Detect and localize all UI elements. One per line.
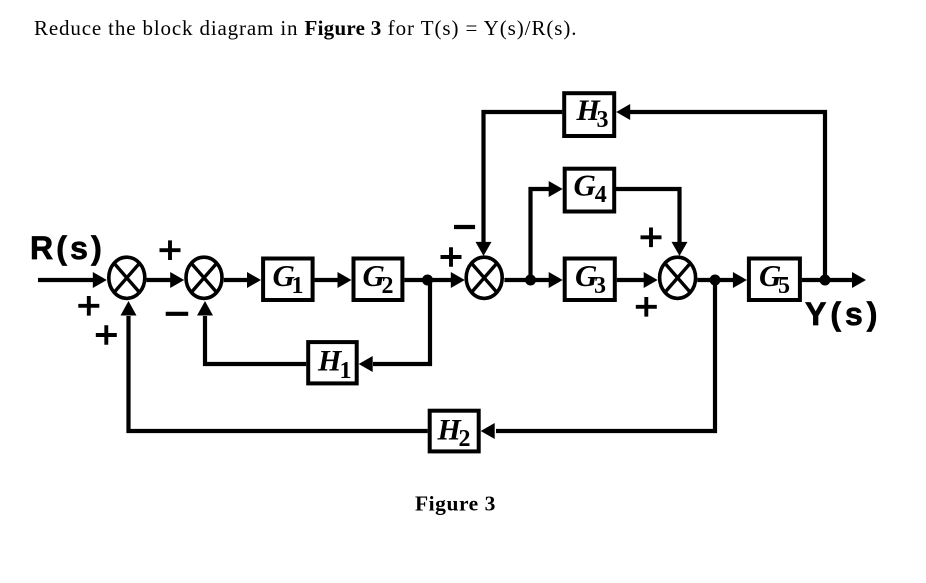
svg-text:2: 2 — [382, 273, 394, 299]
svg-text:2: 2 — [459, 426, 471, 452]
svg-text:Figure 3: Figure 3 — [415, 491, 496, 515]
svg-text:Y(s): Y(s) — [805, 296, 881, 332]
svg-text:3: 3 — [594, 273, 606, 299]
svg-text:R(s): R(s) — [30, 230, 105, 266]
svg-text:1: 1 — [340, 358, 352, 384]
svg-text:Reduce the block diagram in Fi: Reduce the block diagram in Figure 3 for… — [34, 16, 577, 40]
svg-text:G: G — [574, 168, 597, 203]
svg-text:1: 1 — [292, 273, 304, 299]
svg-text:5: 5 — [778, 273, 790, 299]
svg-text:4: 4 — [595, 182, 607, 208]
svg-text:3: 3 — [597, 107, 609, 133]
